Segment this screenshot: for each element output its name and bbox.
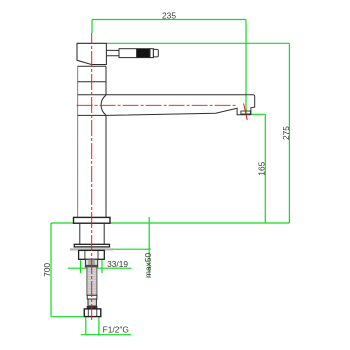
counter underside gray band: [70, 248, 113, 250]
hose connector core: [88, 260, 95, 267]
column joint line: [78, 81, 106, 83]
hose braid hatch: [87, 268, 96, 294]
dimension max50 line: [148, 217, 150, 277]
bottom reference of 700: [51, 316, 84, 318]
vertical axis centerline: [91, 33, 93, 321]
washer plate: [74, 244, 109, 247]
outlet axis tick: [244, 104, 248, 121]
extension top of 275: [107, 42, 290, 44]
end nut facets: [88, 310, 97, 317]
dimension 33/19 line: [68, 267, 132, 269]
handle end cap: [153, 49, 158, 57]
handle black grip: [136, 49, 150, 58]
end nut: [84, 309, 101, 317]
green dimension lines: [51, 20, 289, 335]
hose ferrule: [87, 295, 97, 299]
red centerlines: [77, 33, 248, 321]
extension 33/19 left: [80, 260, 82, 273]
svg-text:700: 700: [42, 263, 52, 277]
mounting nut: [79, 250, 105, 259]
spout outline: [78, 95, 255, 116]
extension F left: [85, 317, 87, 334]
svg-text:165: 165: [256, 161, 266, 175]
extension F right: [98, 317, 100, 334]
hose connector: [85, 259, 97, 267]
spout axis centerline: [77, 104, 237, 106]
hose stub: [88, 299, 96, 306]
extension 33/19 right: [101, 260, 103, 274]
lower reference of max50: [113, 248, 151, 250]
handle stem: [106, 50, 119, 55]
head: [77, 43, 106, 64]
svg-text:275: 275: [281, 126, 291, 140]
extension right of 235 / 165 extension: [245, 20, 247, 114]
base flange: [74, 217, 111, 223]
handle cylinder: [119, 49, 150, 58]
end collar dark: [87, 306, 98, 309]
column right edge: [105, 66, 107, 217]
braided hose: [87, 267, 97, 296]
svg-text:235: 235: [162, 10, 176, 20]
hose connector dark band: [86, 265, 98, 267]
shank: [80, 223, 104, 244]
dimension 235 line: [92, 19, 246, 21]
column left edge: [77, 66, 79, 217]
dimension 275 line: [288, 43, 290, 223]
jog 165: [246, 113, 265, 115]
dimension 165 line: [264, 114, 266, 223]
label line F1/2G: [81, 334, 131, 336]
svg-text:33/19: 33/19: [107, 259, 128, 269]
deck reference line: [51, 222, 289, 224]
column top edge: [78, 65, 106, 67]
dimension 700 line: [50, 223, 52, 317]
nut facets: [85, 251, 98, 259]
extension left of 235: [91, 20, 93, 34]
svg-text:max50: max50: [143, 252, 153, 277]
handle ring: [150, 49, 153, 58]
aerator: [241, 111, 251, 114]
svg-text:F1/2″G: F1/2″G: [103, 325, 129, 335]
spout root arc: [101, 95, 106, 115]
